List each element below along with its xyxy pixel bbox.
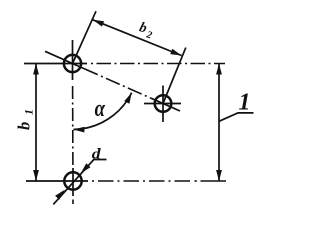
hole B circle — [155, 95, 172, 112]
arrowhead b1 top — [33, 64, 39, 75]
arrowhead right dim top — [216, 64, 222, 75]
inclined centerline A-B (dash-dot middle) — [84, 69, 151, 99]
centerline vertical through hole C (solid bottom) — [72, 168, 74, 196]
hole B vertical centerline — [162, 86, 164, 123]
centerline horizontal through hole C (dash-dot right part) — [92, 180, 190, 182]
svg-text:1: 1 — [239, 90, 251, 116]
arrowhead right dim bottom — [216, 170, 222, 181]
hole A circle — [64, 55, 81, 72]
arrowhead alpha arc right end — [124, 91, 134, 103]
dimension b2 extension line from hole B — [163, 48, 186, 104]
centerline vertical through holes A and C (solid top) — [72, 40, 74, 80]
centerline horizontal through hole A (dash-dot right part) — [91, 63, 225, 65]
arrowhead b2 right — [170, 49, 182, 58]
arrowhead d upper (points to hole C edge) — [79, 163, 91, 175]
centerline hole C dot segment — [195, 180, 197, 182]
svg-text:α: α — [95, 95, 106, 122]
inclined centerline A-B (solid near hole B) — [151, 98, 180, 111]
svg-text:b: b — [14, 122, 33, 130]
arrowhead b1 bottom — [33, 170, 39, 181]
dimension b2 line — [93, 20, 182, 56]
centerline vertical below hole C (dash) — [72, 200, 74, 205]
centerline horizontal through hole A (solid part) — [24, 63, 87, 65]
label b1 — [14, 109, 35, 130]
dimension b1 line — [35, 64, 37, 182]
arrowhead d lower (points to hole C edge) — [55, 188, 67, 200]
label b2 — [137, 20, 155, 41]
centerline horizontal through hole C (solid part) — [26, 180, 88, 182]
leader line of label 1 — [219, 113, 254, 121]
angle alpha arc — [73, 93, 131, 130]
hole C circle — [64, 172, 81, 189]
hole B horizontal centerline — [144, 103, 181, 105]
svg-text:1: 1 — [22, 109, 36, 115]
diameter d dimension line through hole C — [53, 160, 106, 205]
right reference dimension line — [218, 64, 220, 182]
arrowhead alpha arc left end — [73, 127, 84, 133]
centerline hole C final dash — [201, 180, 227, 182]
dimension b2 extension line from hole A — [73, 11, 97, 63]
svg-text:d: d — [92, 145, 102, 162]
arrowhead b2 left — [92, 17, 104, 26]
centerline vertical A-C (dash-dot middle) — [72, 86, 74, 168]
inclined centerline A-B (solid near hole A) — [45, 51, 84, 68]
